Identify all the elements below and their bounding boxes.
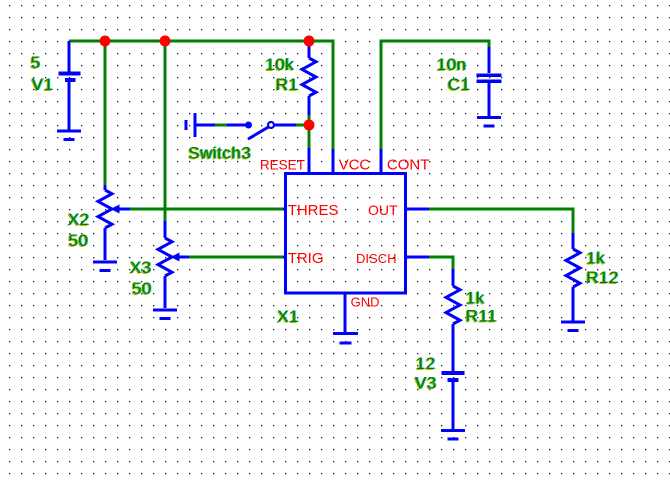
potentiometer X3 wiper arrowhead: [171, 253, 180, 262]
svg-text:OUT: OUT: [368, 202, 398, 218]
svg-text:V1: V1: [32, 75, 54, 94]
pin label VCC: [339, 157, 371, 174]
voltage source V3: [442, 373, 465, 429]
pin RESET (blue stub): [308, 148, 311, 173]
value label 1k: [466, 289, 485, 308]
junction node on top rail at X2: [100, 36, 111, 47]
value label 1k: [586, 249, 605, 268]
svg-text:R1: R1: [276, 75, 299, 94]
pin label RESET: [260, 158, 305, 173]
wire: CONT net up over to capacitor C1: [381, 41, 489, 149]
svg-text:DISCH: DISCH: [356, 251, 396, 266]
svg-text:THRES: THRES: [288, 202, 339, 219]
wire: TRIG wire from pot X3 wiper to IC: [189, 256, 283, 259]
IC X1 body: [286, 174, 406, 294]
svg-text:GND: GND: [351, 295, 380, 310]
ground for IC GND pin: [333, 334, 358, 344]
svg-text:RESET: RESET: [260, 158, 305, 173]
svg-text:C1: C1: [448, 75, 471, 94]
ground for C1: [477, 118, 501, 127]
svg-text:TRIG: TRIG: [288, 250, 324, 267]
pin THRES (blue stub): [281, 208, 286, 211]
name label X2: [68, 210, 90, 229]
pin OUT (blue stub): [404, 208, 429, 211]
wire: drop from top rail to pot X3: [164, 42, 167, 221]
wire: OUT net to R12: [429, 209, 573, 233]
wire: THRES wire from pot X2 wiper to IC: [130, 208, 283, 211]
name label V1: [32, 75, 54, 94]
value label 50: [132, 279, 152, 298]
voltage source V1: [59, 41, 81, 130]
pin VCC (blue stub): [332, 149, 335, 173]
name label R12: [586, 268, 619, 287]
name label R1: [276, 75, 299, 94]
pin label THRES: [288, 202, 339, 219]
name label C1: [448, 75, 471, 94]
pin DISCH (blue stub): [404, 256, 429, 259]
junction node on top rail at X3: [160, 36, 171, 47]
value label 5: [31, 53, 41, 72]
pin TRIG (blue stub): [281, 256, 286, 259]
potentiometer X3: [158, 221, 189, 308]
pin label GND: [351, 295, 380, 310]
switch Switch3: [186, 113, 296, 139]
value label 10n: [437, 55, 467, 74]
wire: top power rail from V1 to VCC drop: [69, 41, 333, 149]
svg-text:12: 12: [416, 354, 436, 373]
potentiometer X2 wiper arrowhead: [111, 205, 120, 214]
wire: DISCH net to R11: [429, 257, 453, 269]
pin label DISCH: [356, 251, 396, 266]
junction node on top rail at R1: [304, 36, 315, 47]
svg-text:CONT: CONT: [387, 157, 430, 174]
svg-text:10n: 10n: [437, 55, 467, 74]
svg-text:X1: X1: [277, 307, 299, 326]
name label R11: [466, 307, 497, 326]
resistor R11: [446, 269, 460, 371]
svg-text:Switch3: Switch3: [188, 144, 251, 163]
value label 12: [416, 354, 436, 373]
pin label TRIG: [288, 250, 324, 267]
svg-text:VCC: VCC: [339, 157, 371, 174]
svg-text:X3: X3: [130, 258, 152, 277]
pin label CONT: [387, 157, 430, 174]
wire: switch to R1-bottom node: [296, 124, 306, 127]
name label X3: [130, 258, 152, 277]
pin GND (blue stub): [344, 292, 347, 332]
switch common contact dot: [245, 122, 252, 129]
name label X1: [277, 307, 299, 326]
svg-text:1k: 1k: [586, 249, 605, 268]
ground for X2: [93, 262, 117, 271]
value label 50: [68, 231, 88, 250]
svg-text:X2: X2: [68, 210, 90, 229]
svg-text:5: 5: [31, 53, 41, 72]
svg-text:10k: 10k: [265, 55, 294, 74]
wire: stub on switch left lead: [215, 124, 227, 127]
switch open contact circle: [268, 122, 274, 128]
resistor R1: [302, 43, 316, 115]
name label Switch3: [188, 144, 251, 163]
svg-text:R11: R11: [466, 307, 497, 326]
ground for R12: [561, 322, 585, 331]
ground for X3: [153, 310, 177, 319]
pin label OUT: [368, 202, 398, 218]
ground for V1: [57, 131, 81, 140]
svg-text:50: 50: [132, 279, 152, 298]
pin CONT (blue stub): [380, 149, 383, 173]
name label V3: [415, 374, 437, 393]
potentiometer X2: [98, 185, 130, 260]
svg-text:1k: 1k: [466, 289, 485, 308]
capacitor C1: [477, 47, 502, 116]
svg-text:V3: V3: [415, 374, 437, 393]
svg-text:R12: R12: [586, 268, 619, 287]
wire: drop from top rail to pot X2: [104, 42, 107, 185]
wire: R1 bottom / switch node down to RESET pin: [308, 114, 311, 148]
svg-text:50: 50: [68, 231, 88, 250]
ground for V3: [441, 431, 465, 440]
junction node at R1 bottom / switch / RESET: [304, 120, 315, 131]
resistor R12: [566, 233, 580, 321]
value label 10k: [265, 55, 294, 74]
